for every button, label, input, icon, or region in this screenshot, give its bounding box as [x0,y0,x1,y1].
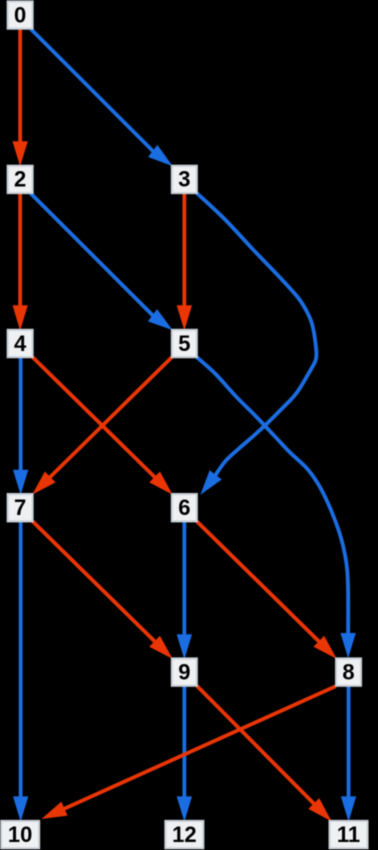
svg-text:4: 4 [14,331,27,356]
node 2 [8,166,33,193]
svg-text:8: 8 [342,659,354,684]
edge 9->12 (blue) [177,686,191,820]
edge 8->11 (blue) [342,686,356,820]
node 0 [8,1,33,28]
edge 4->6 (red) [33,357,172,493]
svg-text:9: 9 [178,659,190,684]
edge 9->11 (red) [197,686,330,820]
edge 2->4 (red) [13,193,27,329]
svg-text:2: 2 [14,167,26,192]
node 9 [172,658,197,685]
svg-text:10: 10 [8,822,32,847]
svg-text:5: 5 [178,331,190,356]
edge 3->5 (red) [177,193,191,329]
node 3 [172,166,197,193]
edge 2->5 (blue) [30,193,171,329]
edge 5->8 (blue) [197,357,355,656]
svg-text:11: 11 [337,822,360,847]
node 10 [1,821,39,848]
edge 6->8 (red) [197,521,336,657]
edge 7->9 (red) [33,521,172,657]
edge 3->6 (blue) [197,193,317,493]
node 6 [172,494,197,521]
edge 0->3 (blue) [31,29,172,165]
node 8 [336,658,361,685]
edge 8->10 (red) [43,686,336,818]
node 4 [8,330,33,357]
svg-text:6: 6 [178,495,190,520]
edge 0->2 (red) [13,29,27,165]
edge 6->9 (blue) [177,521,191,657]
svg-text:0: 0 [14,2,26,27]
edge 7->10 (blue) [14,521,28,820]
node 7 [8,494,33,521]
node 5 [172,330,197,357]
edge 5->7 (red) [33,357,171,493]
edge 4->7 (blue) [14,357,28,493]
svg-text:12: 12 [172,822,196,847]
node 11 [330,821,368,848]
svg-text:7: 7 [14,495,26,520]
node 12 [165,821,203,848]
svg-text:3: 3 [178,167,190,192]
